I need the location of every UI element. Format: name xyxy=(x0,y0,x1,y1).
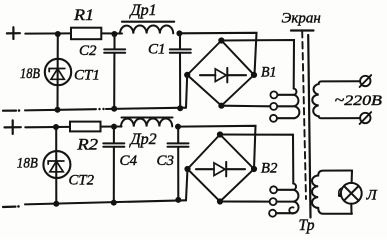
terminal circle tap 2 xyxy=(270,103,277,110)
choke Dr1 core bar xyxy=(122,21,174,23)
transformer winding IIa (channel 2 secondary) xyxy=(293,184,298,214)
node junction C2 top xyxy=(111,31,117,37)
bottom rail channel 1 continued xyxy=(106,108,186,109)
wire lamp loop right top xyxy=(351,171,353,184)
svg-text:В1: В1 xyxy=(261,65,277,81)
terminal circle tap 5 xyxy=(270,198,277,205)
resistor R1 xyxy=(71,28,101,40)
node junction C4 bottom xyxy=(111,200,117,206)
svg-text:В2: В2 xyxy=(261,161,278,177)
minus terminal channel 2 dash xyxy=(3,206,16,209)
wire R1 to choke xyxy=(101,32,122,34)
wire tap 5 lead xyxy=(277,201,294,203)
svg-text:18В: 18В xyxy=(17,156,38,172)
node junction CT1 top xyxy=(55,31,61,37)
terminal circle tap 1 xyxy=(270,91,277,98)
capacitor C2 xyxy=(104,34,125,109)
wire bridge B1 left vertex to bottom rail xyxy=(186,75,187,108)
winding II end curl xyxy=(289,207,294,213)
node junction C1 top xyxy=(176,30,182,36)
terminal circle tap 3 xyxy=(270,115,277,122)
svg-text:Др1: Др1 xyxy=(129,2,157,19)
minus rail dot 2 xyxy=(17,205,20,208)
wire tap 2 lead xyxy=(277,105,294,107)
zener diode CT2 xyxy=(43,151,70,178)
wire bridge B1 top vertex to transformer winding I top xyxy=(221,40,294,89)
svg-text:СТ1: СТ1 xyxy=(74,67,100,83)
node junction CT2 top xyxy=(53,124,59,130)
wire tap 1 lead xyxy=(278,94,294,96)
wire bridge B2 bottom vertex to tap 5 xyxy=(220,200,270,202)
screen top bar xyxy=(291,29,314,31)
node junction C3 bottom xyxy=(175,197,181,203)
bottom rail channel 1 xyxy=(25,109,96,110)
lamp arrow mark xyxy=(339,188,342,194)
terminal 220V bottom xyxy=(360,112,372,124)
lamp L xyxy=(341,183,362,204)
transformer core xyxy=(308,35,310,218)
svg-text:Экран: Экран xyxy=(282,10,321,26)
wire top rail to bridge corner xyxy=(181,33,257,75)
wire R2 to choke 2 xyxy=(101,125,122,127)
zener diode CT1 xyxy=(45,59,71,85)
node junction C1 bottom xyxy=(177,105,183,111)
choke Dr1 winding xyxy=(120,25,173,33)
plus terminal channel 2 xyxy=(5,120,21,134)
minus rail dot 1 xyxy=(18,109,21,112)
node junction CT2 bottom xyxy=(53,201,59,207)
capacitor C4 xyxy=(103,127,124,203)
svg-text:~220В: ~220В xyxy=(335,93,383,109)
wire tap 6 lead xyxy=(276,212,294,214)
resistor R2 xyxy=(70,122,101,132)
wire bridge B2 top vertex to transformer winding II top xyxy=(220,135,293,184)
svg-text:С3: С3 xyxy=(157,153,175,169)
wire bridge B2 left vertex to bottom rail xyxy=(186,169,188,200)
node junction C4 top xyxy=(111,124,117,130)
terminal circle tap 4 xyxy=(270,186,277,193)
svg-text:С2: С2 xyxy=(79,43,97,59)
screen dashed line xyxy=(302,31,306,199)
minus terminal channel 1 dash xyxy=(3,109,16,111)
choke Dr2 winding xyxy=(121,118,172,126)
node junction C3 top xyxy=(175,124,181,130)
svg-text:С4: С4 xyxy=(120,153,138,169)
transformer winding Ia (channel 1 secondary) xyxy=(294,89,300,119)
capacitor C3 xyxy=(168,127,189,200)
svg-text:Л: Л xyxy=(366,188,378,204)
svg-text:Тр: Тр xyxy=(299,217,315,234)
capacitor C1 xyxy=(170,33,191,108)
wire tap 3 lead xyxy=(277,117,294,119)
svg-text:Др2: Др2 xyxy=(129,131,157,148)
transformer primary winding xyxy=(312,81,360,118)
svg-text:С1: С1 xyxy=(148,42,166,58)
wire tap 4 lead xyxy=(277,189,293,191)
svg-text:18В: 18В xyxy=(20,66,40,82)
svg-text:R2: R2 xyxy=(76,137,98,154)
plus terminal channel 1 xyxy=(7,27,20,39)
node junction CT1 bottom xyxy=(55,107,61,113)
wire lamp loop right bottom xyxy=(350,204,352,214)
bridge rectifier B2 xyxy=(184,131,257,204)
wire CT1 lead through xyxy=(56,34,58,110)
transformer lamp winding xyxy=(312,171,352,214)
bottom rail dots channel 1 xyxy=(98,108,100,110)
bottom rail channel 2 xyxy=(25,200,186,204)
wire bridge B1 bottom vertex to tap 2 xyxy=(221,105,270,108)
terminal circle tap 6 xyxy=(269,210,276,217)
bridge rectifier B1 xyxy=(184,37,257,108)
svg-text:R1: R1 xyxy=(73,7,94,24)
node junction C2 bottom xyxy=(111,106,117,112)
wire from plus2 to R2 xyxy=(25,126,70,128)
wire from plus1 to R1 xyxy=(25,32,71,34)
choke Dr2 core bar xyxy=(122,116,173,118)
svg-text:СТ2: СТ2 xyxy=(69,172,95,188)
terminal 220V top xyxy=(360,75,372,87)
wire top rail 2 to bridge corner xyxy=(179,126,256,169)
wire CT2 lead through xyxy=(55,127,57,204)
